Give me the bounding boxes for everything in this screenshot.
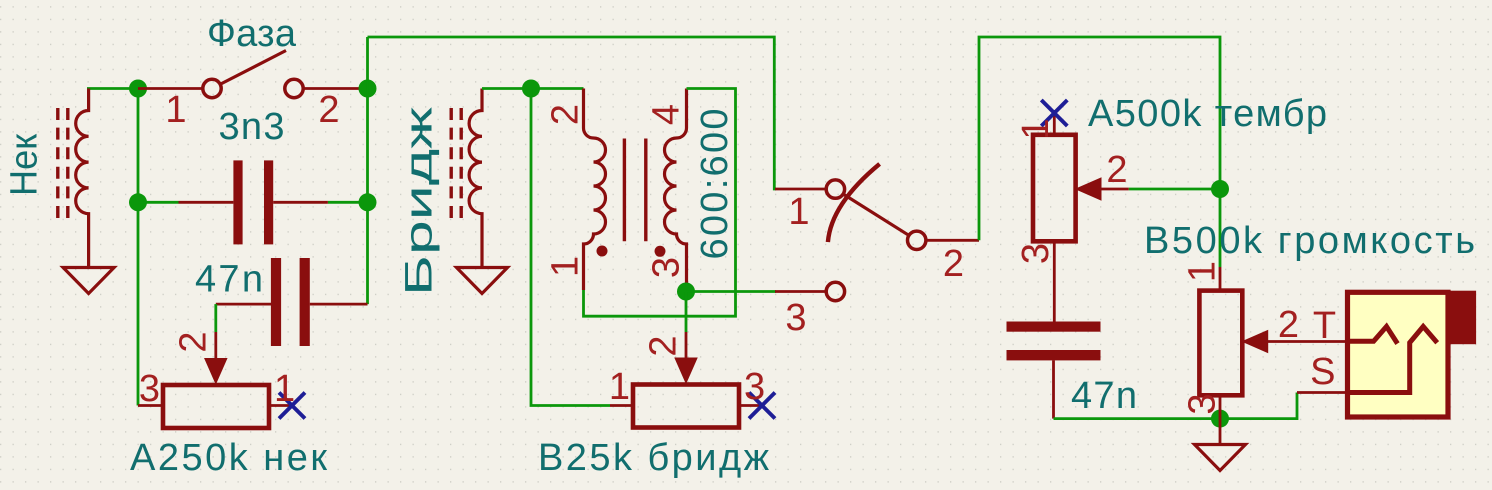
transformer T1 secondary winding bbox=[665, 89, 687, 292]
RV2 pin 3 lead bbox=[739, 404, 764, 407]
no-connect X at RV2 pin3 bbox=[749, 393, 775, 419]
svg-text:3: 3 bbox=[1182, 393, 1224, 414]
switch SW1 lever bbox=[221, 51, 286, 85]
wire: neck pickup top to junction J1 bbox=[87, 87, 138, 90]
wire: J1b to C1 left pin bbox=[138, 201, 179, 204]
wire: left vertical bus x=138 from J1 down to A250k pin3 bbox=[137, 89, 140, 406]
svg-text:2: 2 bbox=[545, 104, 587, 125]
svg-text:4: 4 bbox=[646, 104, 688, 125]
switch SW1 pin2 circle bbox=[285, 79, 303, 97]
transformer T1 core lines bbox=[623, 139, 626, 242]
no-connect X at RV1 pin1 bbox=[279, 393, 305, 419]
svg-text:1: 1 bbox=[274, 368, 295, 410]
capacitor C2 47n left pin bbox=[216, 303, 271, 306]
svg-text:2: 2 bbox=[173, 331, 215, 352]
svg-text:A250k нек: A250k нек bbox=[130, 437, 327, 479]
wire: bridge pickup to transformer pin2, junction J4 bbox=[482, 87, 584, 90]
capacitor C2 47n plates bbox=[271, 258, 281, 346]
svg-text:Нек: Нек bbox=[4, 134, 46, 196]
RV4 wiper arrow bbox=[1243, 331, 1268, 353]
svg-text:2: 2 bbox=[1106, 149, 1127, 191]
RV4 pin 1 stem bbox=[1219, 267, 1222, 291]
potentiometer RV2 B25k body bbox=[633, 385, 739, 428]
ground below J7 bbox=[1219, 419, 1222, 445]
RV3 pin 1 stem bbox=[1053, 110, 1056, 135]
RV2 wiper pin 2 stem bbox=[685, 332, 688, 361]
jack S pin lead bbox=[1297, 391, 1348, 394]
svg-text:1: 1 bbox=[545, 256, 587, 277]
svg-text:B25k бридж: B25k бридж bbox=[538, 437, 770, 479]
svg-text:2: 2 bbox=[643, 335, 685, 356]
RV3 wiper pin lead bbox=[1099, 188, 1129, 191]
capacitor C2 47n right pin bbox=[310, 303, 368, 306]
svg-text:3: 3 bbox=[646, 257, 688, 278]
switch SW1 Фаза pin1 circle bbox=[203, 79, 221, 97]
junction J6 bbox=[1211, 180, 1229, 198]
svg-text:Бридж: Бридж bbox=[399, 106, 441, 296]
wire: vertical x=531 from J4 down to B25k pin1 bbox=[531, 89, 610, 406]
svg-text:1: 1 bbox=[1182, 261, 1224, 282]
wire: J5 down to B25k wiper bbox=[685, 292, 688, 333]
switch SW2 pin2 circle bbox=[908, 231, 926, 249]
switch SW2 lever bbox=[843, 194, 909, 235]
wire: J6 left to A500k wiper bbox=[1129, 188, 1220, 191]
svg-text:Фаза: Фаза bbox=[207, 13, 297, 55]
svg-text:1: 1 bbox=[1015, 118, 1057, 139]
RV4 wiper pin lead to jack T bbox=[1265, 340, 1348, 343]
wire: J1 to switch SW1 pin1 (red) bbox=[138, 87, 202, 90]
jack J1 body bbox=[1348, 292, 1449, 417]
svg-text:2: 2 bbox=[318, 89, 339, 131]
svg-text:1: 1 bbox=[609, 366, 630, 408]
RV1 wiper arrow bbox=[205, 359, 227, 384]
potentiometer RV4 B500k body bbox=[1199, 291, 1242, 396]
svg-text:47n: 47n bbox=[195, 259, 263, 301]
switch SW2 pin3 lead (red) bbox=[775, 290, 826, 293]
wire: transformer pin4 to right loop vertical bbox=[584, 89, 736, 317]
wire: vertical x=367.5 from top bus through J2, J3 to C2 right pin bbox=[366, 37, 369, 304]
RV2 pin 1 lead bbox=[610, 404, 633, 407]
capacitor C3 bottom pin bbox=[1052, 360, 1055, 418]
capacitor C1 3n3 right pin bbox=[273, 201, 328, 204]
potentiometer RV1 A250k body bbox=[163, 385, 269, 428]
svg-text:A500k тембр: A500k тембр bbox=[1088, 93, 1327, 135]
transformer T1 primary winding bbox=[584, 89, 606, 291]
pickup L1 Нек coil bbox=[76, 89, 89, 268]
transformer T1 polarity dot secondary bbox=[655, 246, 666, 257]
wire: C1 right pin to J3 bbox=[328, 201, 368, 204]
pickup L1 core dashed lines bbox=[56, 108, 59, 218]
svg-text:1: 1 bbox=[788, 191, 809, 233]
svg-text:T: T bbox=[1313, 305, 1336, 347]
junction J4 bbox=[522, 80, 540, 98]
RV1 pin 1 lead bbox=[269, 404, 294, 407]
switch SW2 arc bbox=[828, 164, 880, 242]
transformer T1 polarity dot primary bbox=[597, 246, 608, 257]
pickup L2 Бридж coil bbox=[469, 89, 482, 268]
svg-text:1: 1 bbox=[165, 89, 186, 131]
RV3 pin 3 stem down to C3 plate bbox=[1053, 241, 1056, 321]
svg-text:2: 2 bbox=[943, 243, 964, 285]
RV4 pin 3 stem bbox=[1219, 395, 1222, 418]
jack tip contact bbox=[1348, 327, 1398, 344]
switch SW2 pin1 lead (red) bbox=[775, 188, 826, 191]
switch SW2 pin2 lead (red) bbox=[926, 239, 979, 242]
wire: SW1 pin2 to J2 (red) bbox=[304, 87, 368, 90]
junction J2 bbox=[359, 80, 377, 98]
svg-text:47n: 47n bbox=[1071, 375, 1137, 417]
capacitor C1 3n3 plates bbox=[233, 160, 242, 244]
wire: C2 left pin down to A250k wiper bbox=[214, 304, 217, 332]
svg-text:3: 3 bbox=[744, 366, 765, 408]
switch SW2 pin1 circle bbox=[826, 180, 844, 198]
potentiometer RV3 A500k body bbox=[1033, 135, 1076, 242]
capacitor C1 3n3 left pin bbox=[179, 201, 234, 204]
junction J1 bbox=[129, 80, 147, 98]
junction J1b bbox=[129, 193, 147, 211]
jack barrel bbox=[1446, 291, 1477, 345]
capacitor C3 47n plates bbox=[1007, 322, 1101, 332]
ground below neck pickup bbox=[63, 268, 114, 294]
RV2 wiper arrow bbox=[675, 358, 697, 383]
RV1 wiper pin 2 stem bbox=[214, 332, 217, 362]
wire: top bus left segment bbox=[368, 37, 777, 189]
RV3 wiper arrow bbox=[1076, 178, 1101, 200]
wire: SW2 pin2 up and right top bus to x=1220 bbox=[979, 37, 1220, 267]
no-connect X at RV3 pin1 bbox=[1041, 100, 1067, 126]
svg-text:3: 3 bbox=[785, 297, 806, 339]
svg-text:3: 3 bbox=[1015, 243, 1057, 264]
junction J5 at transformer pin3 bbox=[677, 283, 695, 301]
svg-text:3n3: 3n3 bbox=[219, 106, 285, 148]
junction J3 bbox=[359, 193, 377, 211]
wire: bottom bus bbox=[1054, 393, 1298, 419]
wire: J5 to SW2 pin3 bbox=[686, 290, 776, 293]
RV1 pin 3 lead bbox=[138, 404, 163, 407]
junction J7 bbox=[1211, 410, 1229, 428]
switch SW2 pin3 circle bbox=[826, 282, 844, 300]
ground below bridge pickup bbox=[457, 268, 508, 294]
svg-text:2: 2 bbox=[1278, 304, 1299, 346]
svg-text:S: S bbox=[1310, 351, 1335, 393]
pickup L2 core dashed lines bbox=[450, 108, 453, 218]
svg-text:3: 3 bbox=[139, 368, 160, 410]
jack sleeve contact bbox=[1348, 327, 1438, 393]
